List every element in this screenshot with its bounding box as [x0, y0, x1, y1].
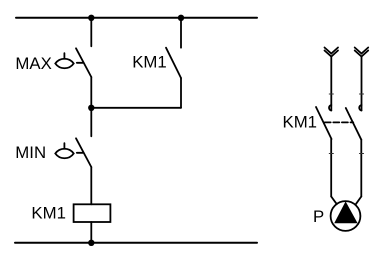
svg-text:MIN: MIN	[15, 143, 46, 162]
svg-text:KM1: KM1	[132, 53, 167, 72]
svg-text:P: P	[313, 207, 324, 226]
svg-text:MAX: MAX	[15, 54, 51, 73]
svg-text:KM1: KM1	[31, 204, 66, 223]
svg-text:KM1: KM1	[283, 113, 318, 132]
